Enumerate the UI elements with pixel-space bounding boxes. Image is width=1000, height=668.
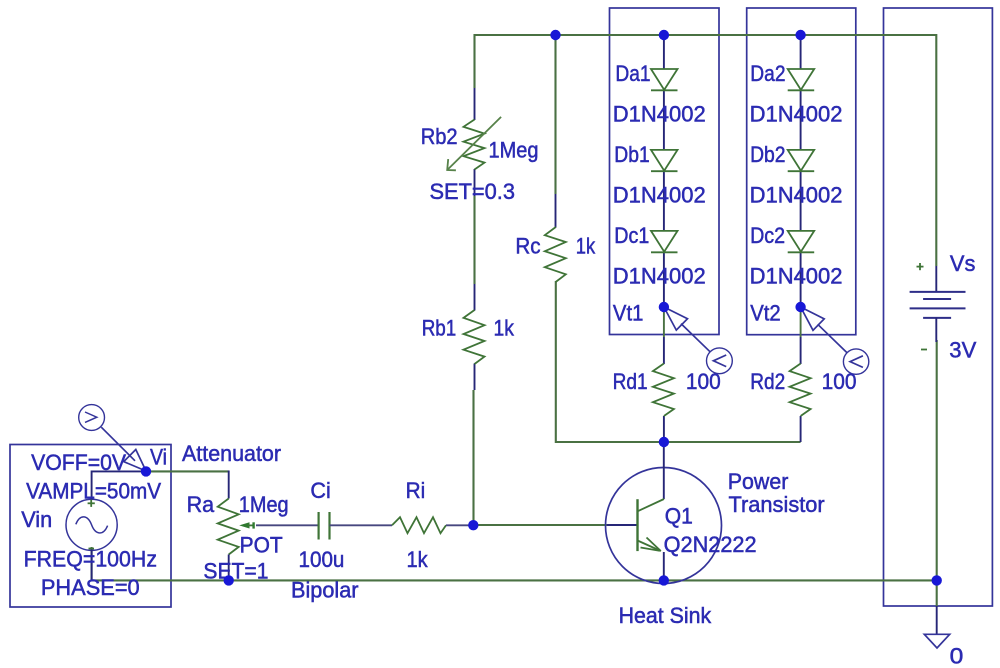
svg-text:Rb1: Rb1 xyxy=(422,316,457,341)
svg-text:3V: 3V xyxy=(949,337,976,362)
svg-text:Da1: Da1 xyxy=(615,61,650,86)
svg-text:Q1: Q1 xyxy=(665,504,693,529)
svg-text:Db1: Db1 xyxy=(614,142,649,167)
svg-text:Ci: Ci xyxy=(310,478,330,503)
svg-text:Rc: Rc xyxy=(515,233,540,258)
svg-text:D1N4002: D1N4002 xyxy=(750,182,843,207)
svg-text:100u: 100u xyxy=(299,547,345,572)
svg-text:Rd1: Rd1 xyxy=(613,369,648,394)
svg-text:100: 100 xyxy=(686,369,721,394)
svg-text:Bipolar: Bipolar xyxy=(291,578,359,603)
svg-text:Attenuator: Attenuator xyxy=(182,441,281,466)
svg-text:VOFF=0V: VOFF=0V xyxy=(31,450,126,475)
svg-text:D1N4002: D1N4002 xyxy=(613,263,706,288)
svg-text:Q2N2222: Q2N2222 xyxy=(664,532,757,557)
svg-text:Heat Sink: Heat Sink xyxy=(619,603,713,628)
svg-text:1Meg: 1Meg xyxy=(489,137,539,162)
svg-text:1k: 1k xyxy=(407,547,429,572)
svg-text:Dc1: Dc1 xyxy=(614,223,649,248)
svg-text:Db2: Db2 xyxy=(750,142,785,167)
svg-text:POT: POT xyxy=(240,533,283,558)
svg-text:D1N4002: D1N4002 xyxy=(750,263,843,288)
svg-text:Vs: Vs xyxy=(950,251,976,276)
svg-text:FREQ=100Hz: FREQ=100Hz xyxy=(24,546,157,571)
svg-text:Ri: Ri xyxy=(406,478,426,503)
svg-text:1k: 1k xyxy=(576,233,596,258)
svg-text:D1N4002: D1N4002 xyxy=(613,101,706,126)
svg-text:Power: Power xyxy=(728,469,789,494)
svg-text:SET=1: SET=1 xyxy=(203,559,268,584)
svg-text:Transistor: Transistor xyxy=(729,492,825,517)
svg-text:Ra: Ra xyxy=(187,492,215,517)
svg-text:Vin: Vin xyxy=(21,507,52,532)
svg-text:Rd2: Rd2 xyxy=(750,369,785,394)
svg-text:Da2: Da2 xyxy=(750,61,785,86)
svg-text:Dc2: Dc2 xyxy=(750,223,785,248)
svg-text:PHASE=0: PHASE=0 xyxy=(41,575,140,600)
svg-text:Vt1: Vt1 xyxy=(613,300,644,325)
svg-text:Rb2: Rb2 xyxy=(421,124,458,149)
svg-text:1k: 1k xyxy=(494,316,515,341)
svg-text:D1N4002: D1N4002 xyxy=(750,101,843,126)
svg-text:0: 0 xyxy=(950,643,964,668)
svg-text:100: 100 xyxy=(822,369,857,394)
svg-text:Vt2: Vt2 xyxy=(750,300,781,325)
svg-text:D1N4002: D1N4002 xyxy=(613,182,706,207)
svg-text:VAMPL=50mV: VAMPL=50mV xyxy=(26,478,161,503)
svg-text:Vi: Vi xyxy=(150,445,167,470)
svg-text:1Meg: 1Meg xyxy=(239,492,289,517)
svg-text:SET=0.3: SET=0.3 xyxy=(430,179,516,204)
